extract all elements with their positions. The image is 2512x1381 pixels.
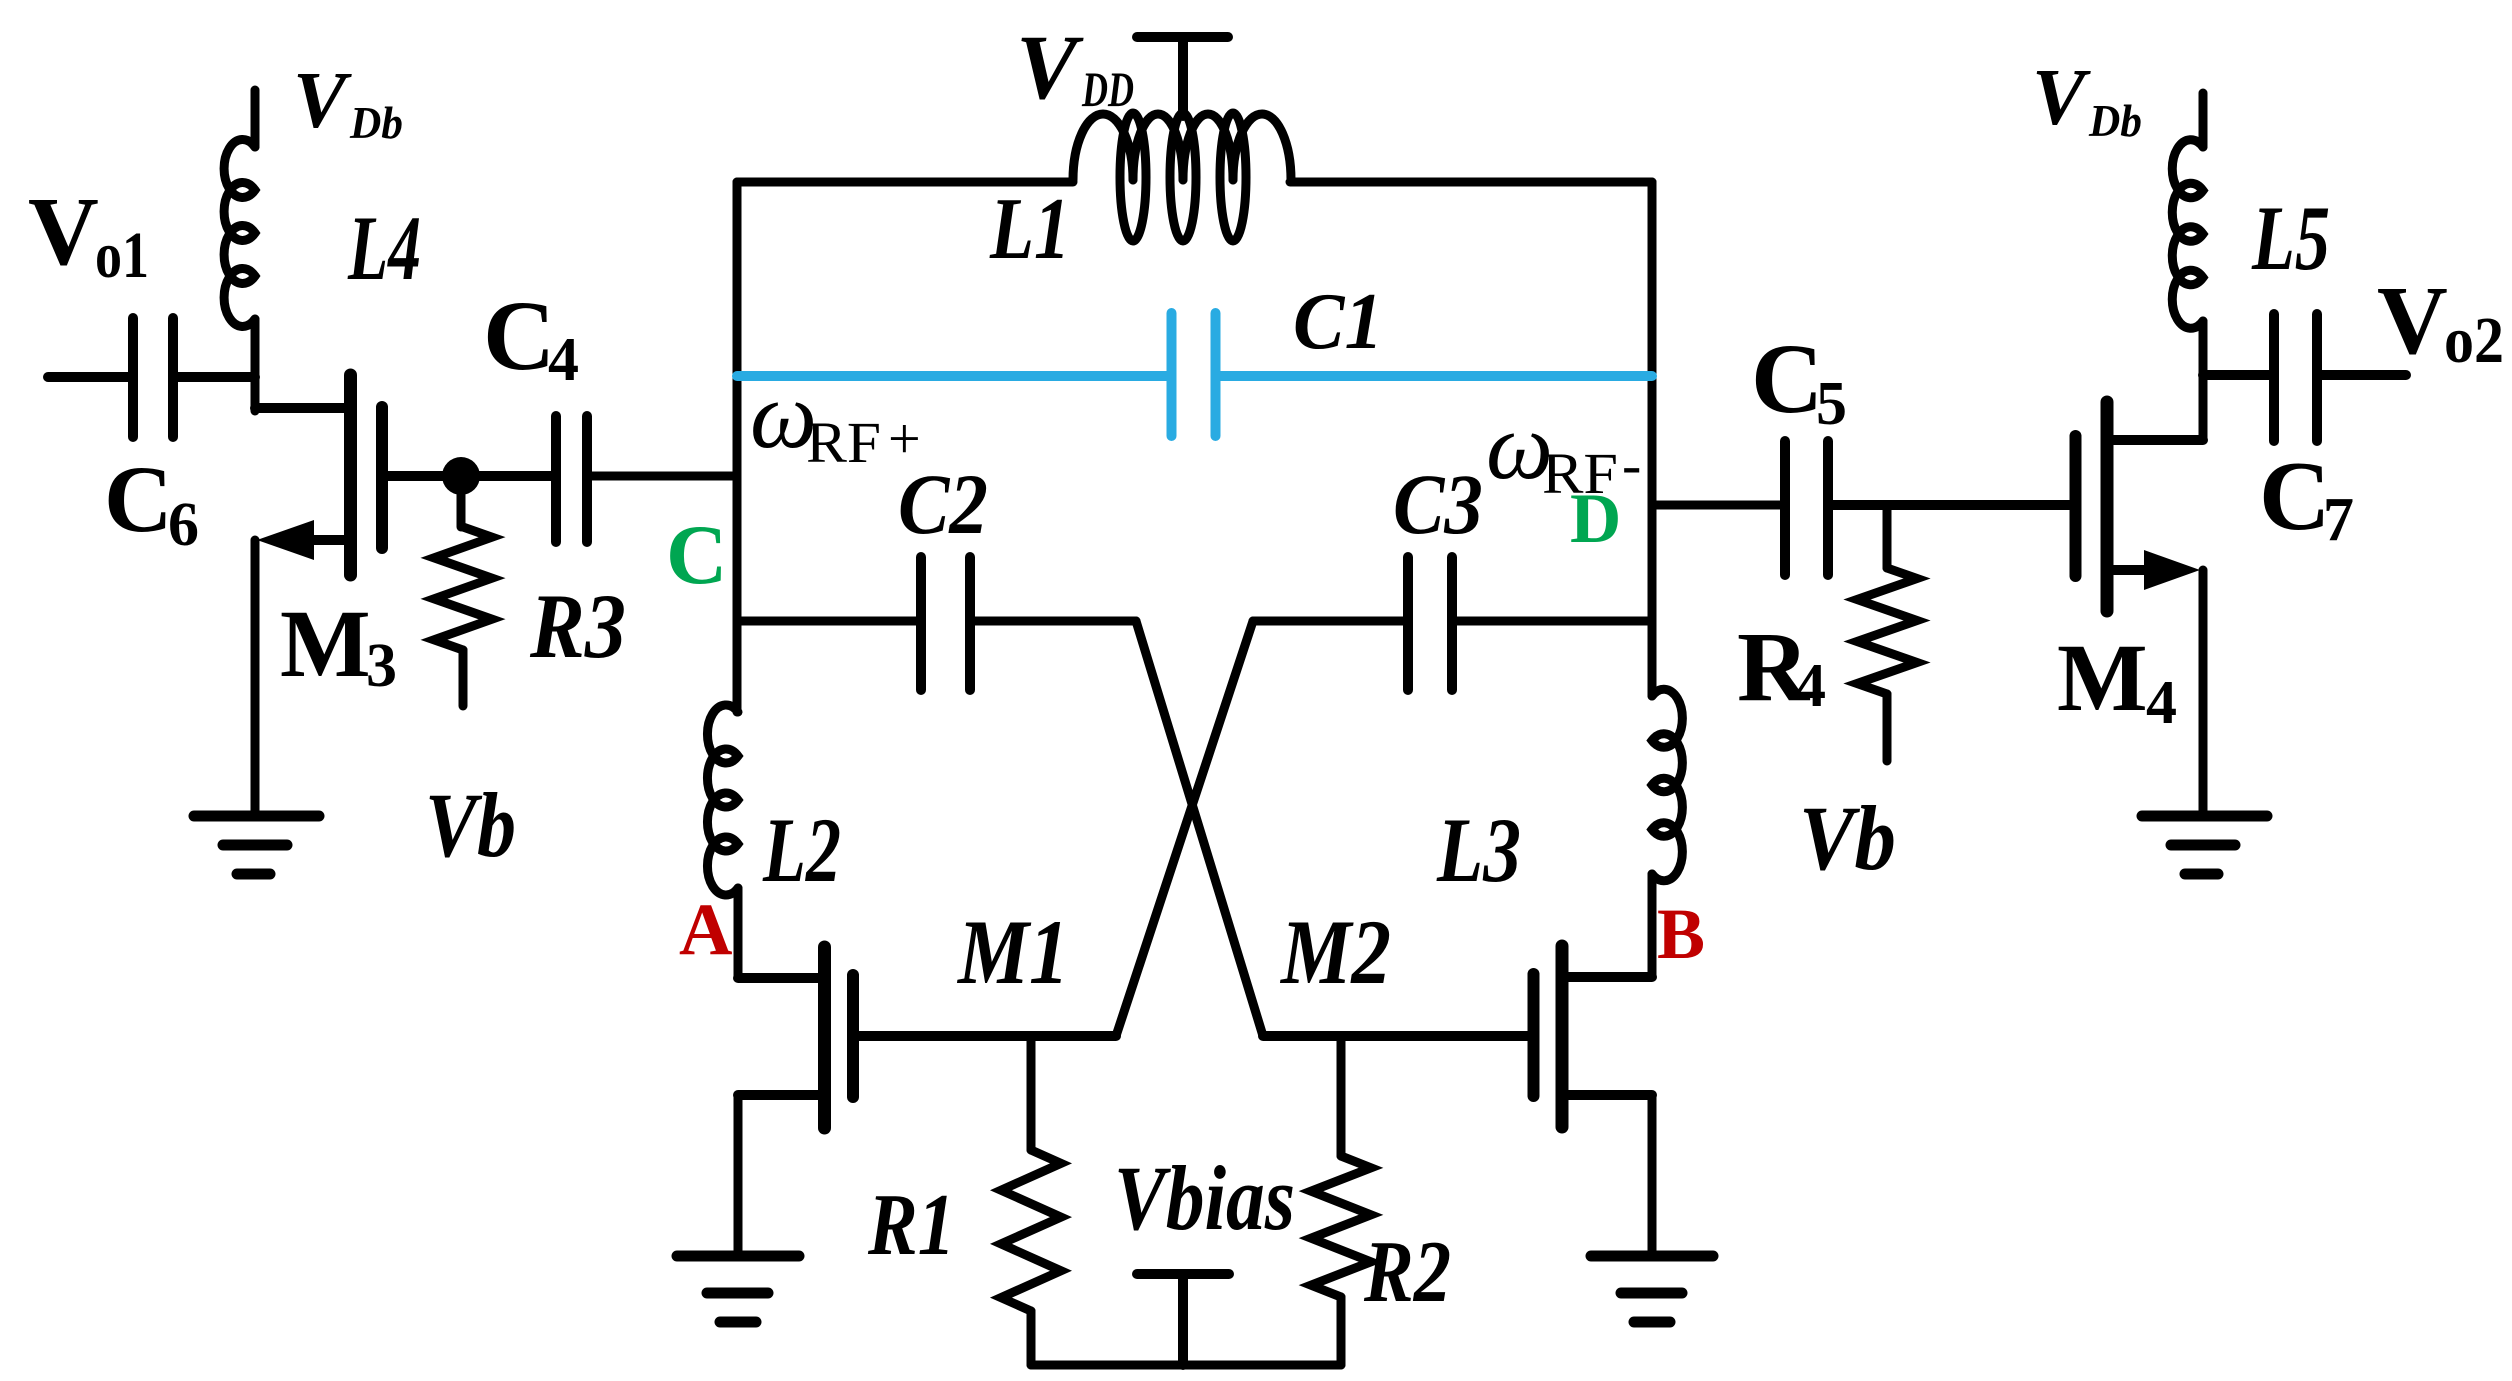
wire M4 drain up — [2199, 321, 2208, 440]
transistor M4 — [2076, 402, 2204, 611]
capacitor C5 — [1785, 441, 2075, 575]
svg-text:Db: Db — [2088, 95, 2142, 146]
svg-text:M2: M2 — [1279, 901, 1391, 1003]
svg-text:Vb: Vb — [425, 774, 516, 876]
svg-text:C: C — [483, 280, 555, 391]
svg-text:D: D — [1570, 480, 1621, 558]
resistor R2 — [1311, 1036, 1371, 1365]
wire C2 to cross-coupling — [975, 617, 1136, 626]
svg-text:L3: L3 — [1436, 799, 1521, 901]
wire node C to C2 — [737, 617, 916, 626]
power VDD symbol — [1137, 37, 1228, 116]
label C5 — [1751, 323, 1847, 438]
svg-text:C1: C1 — [1293, 278, 1383, 366]
wire node B — [1648, 874, 1657, 977]
ground M4 — [2142, 816, 2267, 874]
label VDD — [1016, 16, 1134, 118]
capacitor C7 — [2203, 314, 2406, 441]
svg-text:M1: M1 — [956, 901, 1069, 1003]
svg-text:V: V — [2377, 267, 2448, 375]
svg-text:o1: o1 — [95, 219, 149, 292]
capacitor C1 — [737, 313, 1652, 436]
svg-text:o2: o2 — [2444, 304, 2504, 377]
inductor L3 — [1652, 689, 1682, 880]
svg-text:7: 7 — [2323, 486, 2354, 554]
svg-text:V: V — [1016, 16, 1084, 118]
transistor M1 — [738, 947, 1116, 1128]
label M4 — [2057, 624, 2177, 737]
svg-text:C2: C2 — [898, 456, 988, 552]
capacitor C4 — [480, 416, 587, 542]
transistor M3 — [255, 375, 480, 575]
resistor R1 — [1001, 1036, 1061, 1365]
source Vbias symbol — [1137, 1274, 1229, 1365]
inductor L5 — [2172, 93, 2203, 328]
svg-text:4: 4 — [2146, 669, 2177, 737]
wire M2 source to ground — [1648, 1095, 1657, 1256]
wire cross-coupling C3 to M1 gate — [1116, 621, 1253, 1036]
svg-text:L2: L2 — [762, 799, 841, 901]
wire node A — [734, 888, 743, 978]
label VDb left — [293, 57, 403, 148]
svg-text:Vbias: Vbias — [1114, 1147, 1295, 1249]
wire cross-coupling C2 to M2 gate — [1136, 621, 1263, 1036]
label Vo2 — [2377, 267, 2504, 377]
label M3 — [280, 590, 397, 700]
label C6 — [104, 446, 199, 559]
svg-text:C: C — [666, 508, 727, 602]
wire tank right vertical (node wRF-) — [1648, 182, 1657, 696]
label Vo1 — [28, 178, 149, 292]
label C7 — [2259, 442, 2354, 554]
svg-text:6: 6 — [168, 491, 199, 559]
inductor L4 — [224, 90, 255, 411]
svg-text:C: C — [1751, 323, 1823, 434]
svg-text:DD: DD — [1081, 61, 1134, 117]
svg-text:V: V — [28, 178, 99, 286]
svg-text:4: 4 — [1795, 652, 1826, 720]
capacitor C2 — [921, 557, 970, 690]
ground M1 — [677, 1256, 799, 1322]
wire M3 source to ground — [251, 540, 260, 816]
svg-text:M: M — [280, 590, 371, 697]
svg-text:L4: L4 — [347, 197, 421, 299]
svg-text:B: B — [1657, 894, 1705, 974]
svg-text:5: 5 — [1816, 370, 1847, 438]
arrow M4 source — [2144, 550, 2200, 590]
label C4 — [483, 280, 579, 394]
svg-text:4: 4 — [548, 326, 579, 394]
svg-text:Vb: Vb — [1799, 787, 1896, 889]
transistor M2 — [1263, 946, 1652, 1127]
svg-text:RF: RF — [806, 410, 881, 475]
svg-text:C: C — [104, 446, 173, 552]
svg-text:3: 3 — [366, 632, 397, 700]
svg-text:R1: R1 — [867, 1177, 955, 1274]
wire bias bottom — [1031, 1361, 1341, 1370]
svg-text:L5: L5 — [2251, 187, 2330, 289]
wire M1 source to ground — [734, 1095, 743, 1256]
junction dot M3 gate — [442, 457, 480, 495]
svg-text:-: - — [1622, 432, 1641, 497]
ground M2 — [1591, 1256, 1713, 1322]
wire C3 to cross-coupling — [1253, 617, 1403, 626]
ground M3 — [194, 816, 319, 874]
arrow M3 source — [257, 520, 314, 560]
svg-text:L1: L1 — [989, 181, 1070, 278]
svg-text:V: V — [293, 57, 352, 145]
node wRF+ label — [750, 362, 921, 475]
inductor L2 — [707, 705, 738, 895]
wire tank top right segment — [1290, 178, 1652, 187]
wire node C to C4 — [592, 472, 737, 481]
resistor R4 — [1857, 505, 1917, 761]
wire node D to C3 — [1457, 617, 1652, 626]
svg-text:A: A — [679, 889, 732, 971]
wire tank left vertical (node wRF+) — [733, 182, 742, 712]
svg-text:C3: C3 — [1393, 456, 1483, 552]
svg-text:C: C — [2259, 442, 2331, 551]
inductor L1 — [1073, 113, 1291, 241]
svg-text:R3: R3 — [529, 575, 626, 677]
wire M4 source to ground — [2199, 570, 2208, 816]
svg-text:V: V — [2032, 54, 2091, 142]
wire node D — [1652, 501, 1780, 510]
wire tank top left segment — [737, 178, 1073, 187]
svg-text:R2: R2 — [1363, 1224, 1451, 1321]
label R4 — [1737, 611, 1826, 722]
label VDb right — [2032, 54, 2142, 146]
capacitor C6 — [48, 318, 255, 437]
resistor R3 — [434, 495, 492, 706]
svg-text:M: M — [2057, 624, 2148, 731]
node wRF- label — [1486, 393, 1641, 506]
svg-text:Db: Db — [349, 97, 403, 148]
capacitor C3 — [1408, 557, 1452, 690]
